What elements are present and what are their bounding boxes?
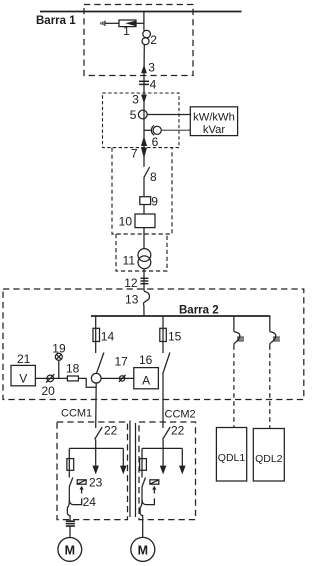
wire CCM1 feeder [95, 383, 98, 428]
fuse (CCM1 motor branch) [67, 459, 74, 471]
svg-text:3: 3 [132, 92, 139, 106]
separator line a [129, 421, 131, 518]
svg-text:QDL2: QDL2 [255, 453, 283, 465]
svg-text:11: 11 [123, 253, 136, 267]
svg-text:8: 8 [150, 170, 157, 184]
wire [143, 269, 145, 291]
transformer 11 [123, 249, 151, 269]
fuse link 20 [42, 374, 56, 398]
metering cubicle box (dashed) [103, 93, 180, 148]
fuse 15 [160, 328, 182, 343]
fuse 14 [93, 328, 114, 343]
svg-text:V: V [19, 372, 27, 386]
transformer box (dashed, sides+bottom) [116, 234, 167, 271]
measuring tap circle [91, 373, 101, 383]
svg-text:kVar: kVar [203, 124, 225, 136]
cable 13 [125, 291, 149, 316]
svg-text:M: M [65, 543, 75, 557]
panel QDL1 [216, 428, 246, 482]
cable marking [66, 521, 75, 526]
svg-text:14: 14 [101, 330, 115, 344]
svg-text:A: A [142, 374, 150, 388]
svg-text:22: 22 [104, 424, 118, 438]
wire arrester branch [105, 22, 119, 24]
contactor 23 [69, 476, 102, 490]
fuse 18 [66, 361, 80, 381]
bus Barra 2 [91, 315, 270, 317]
svg-text:10: 10 [119, 215, 133, 229]
trip arrow [80, 486, 84, 494]
svg-text:22: 22 [171, 424, 185, 438]
trip arrow [152, 486, 156, 494]
substation box Barra 2 (dashed) [3, 289, 304, 400]
transformer cubicle box (dashed, sides+bottom) [112, 148, 172, 234]
disconnect switch 8 [144, 167, 157, 197]
disconnect switch 22 (CCM2) [163, 424, 185, 449]
wire CCM2 feeder drop [162, 316, 164, 353]
enclosure box (entrance cubicle, dashed) [84, 5, 193, 76]
disconnect switch (CCM1 feeder) [97, 353, 104, 374]
svg-text:23: 23 [89, 476, 103, 490]
wire [143, 205, 145, 215]
wire CCM1 feeder drop [95, 316, 97, 353]
fuse (CCM2 motor branch) [140, 459, 147, 471]
svg-text:7: 7 [131, 147, 138, 161]
terminal link 4 [139, 75, 157, 95]
svg-text:2: 2 [150, 33, 157, 47]
disconnect switch 22 (CCM1) [95, 424, 118, 449]
svg-text:19: 19 [52, 341, 66, 355]
wire main feeder x=144 [143, 12, 145, 31]
wire tap to ammeter [101, 377, 134, 379]
wire [68, 487, 70, 501]
svg-text:1: 1 [123, 24, 130, 38]
contactor (CCM2) [142, 478, 159, 488]
ground (arrester earth) [101, 21, 105, 26]
svg-text:Barra 1: Barra 1 [36, 15, 76, 27]
disconnect switch (CCM2 feeder) [163, 353, 170, 373]
fuse 9 [140, 195, 159, 209]
wire CT to meter [161, 129, 190, 131]
wire to meter [147, 114, 190, 116]
svg-text:13: 13 [125, 292, 139, 306]
drawout contacts 2 [142, 30, 157, 47]
breaker box 10 [119, 214, 155, 229]
instrument tap 5 [130, 108, 147, 122]
wire [143, 95, 145, 167]
meter kW/kWh kVar [190, 107, 237, 136]
plug arrow 3 (down) [132, 92, 147, 106]
wire [143, 45, 145, 76]
plug arrow pair 7 (up) [141, 136, 147, 146]
svg-text:4: 4 [150, 78, 157, 92]
svg-text:20: 20 [42, 384, 56, 398]
box CCM2 (dashed) [139, 422, 196, 520]
voltmeter 21 [11, 352, 35, 386]
current transformer 6 [144, 125, 161, 148]
cable to QDL1 [234, 332, 244, 346]
svg-text:18: 18 [66, 361, 80, 375]
panel QDL2 [253, 429, 284, 482]
svg-text:CCM2: CCM2 [165, 409, 196, 421]
svg-text:12: 12 [124, 276, 138, 290]
cable to QDL2 [270, 332, 280, 346]
plug arrow 3 (up) [141, 61, 155, 75]
feeder arrow (CCM2 mid) [160, 448, 167, 474]
feeder arrow (CCM2 right) [179, 448, 186, 474]
feeder arrow (CCM1 mid) [92, 448, 99, 474]
wire CCM2 feeder [162, 373, 164, 429]
svg-text:16: 16 [139, 353, 153, 367]
cable termination 12 [124, 276, 148, 290]
svg-text:17: 17 [115, 354, 129, 368]
svg-text:kW/kWh: kW/kWh [193, 112, 235, 124]
surge arrester 1 [119, 20, 144, 38]
motor M2 [131, 537, 155, 561]
svg-text:9: 9 [151, 195, 158, 209]
bus CCM2 internal [142, 447, 182, 449]
ammeter 16 [134, 353, 159, 389]
wire fuse branch [141, 448, 143, 477]
wire [141, 487, 143, 501]
svg-text:5: 5 [130, 108, 137, 122]
drawout contact (CCM2) [142, 498, 154, 504]
svg-text:21: 21 [17, 352, 31, 366]
wire to motor 1 [69, 526, 71, 537]
wire drawout jog [67, 501, 70, 521]
wire jog to feeder [78, 378, 96, 387]
svg-text:CCM1: CCM1 [61, 408, 92, 420]
wire QDL1 drop [233, 316, 235, 332]
svg-text:6: 6 [152, 135, 159, 149]
bus CCM1 internal [69, 447, 123, 449]
drawout contact 24 [69, 495, 96, 509]
feeder arrow (CCM1 right) [120, 448, 127, 474]
bus Barra 1 [40, 11, 242, 13]
svg-text:15: 15 [168, 330, 182, 344]
wire metering [35, 377, 67, 379]
fuse link 17 [115, 354, 129, 382]
svg-text:3: 3 [148, 61, 155, 75]
svg-text:Barra 2: Barra 2 [179, 305, 219, 317]
wire drawout jog [140, 501, 143, 537]
lamp 19 [52, 341, 66, 378]
box CCM1 (dashed) [57, 422, 128, 520]
wire (dashed) to QDL2 [269, 345, 271, 428]
wire fuse branch [68, 448, 70, 477]
motor M1 [58, 538, 82, 562]
wire [143, 228, 145, 249]
svg-text:M: M [138, 543, 148, 557]
separator line b [135, 423, 137, 517]
svg-text:24: 24 [83, 495, 97, 509]
wire QDL2 drop [269, 316, 271, 332]
wire (dashed) to QDL1 [233, 345, 235, 427]
plug arrow 7 (down) [131, 147, 147, 161]
svg-text:QDL1: QDL1 [218, 452, 246, 464]
